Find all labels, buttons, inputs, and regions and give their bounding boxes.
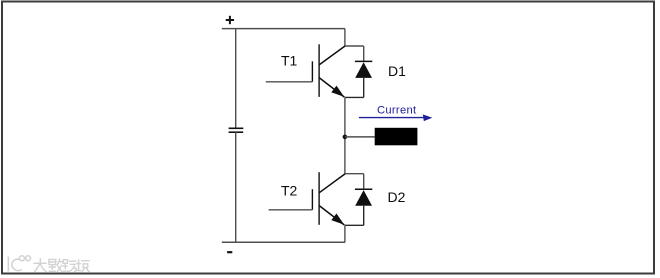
watermark text (stylised CJK strokes) bbox=[34, 259, 89, 272]
capacitor C1 bbox=[229, 128, 244, 132]
wire capacitor branch upper bbox=[235, 29, 237, 128]
svg-text:D1: D1 bbox=[388, 63, 406, 79]
node - (negative DC rail label) bbox=[227, 251, 232, 253]
svg-text:D2: D2 bbox=[388, 189, 406, 205]
wire T2 collector from mid node bbox=[345, 173, 364, 175]
watermark logo bbox=[8, 256, 30, 272]
wire mid node to load bbox=[345, 136, 375, 138]
wire bottom rail bbox=[222, 241, 345, 243]
wire top rail bbox=[222, 28, 345, 30]
wire T1 emitter to mid node bbox=[345, 96, 364, 98]
wire T1 collector from top rail bbox=[345, 29, 364, 46]
wire T2 emitter to bottom rail bbox=[345, 224, 364, 226]
transistor T1 (IGBT) bbox=[266, 44, 345, 97]
svg-text:T1: T1 bbox=[281, 53, 298, 69]
diode D2 bbox=[355, 174, 372, 226]
diode D1 bbox=[355, 46, 372, 97]
node + (positive DC rail label) bbox=[226, 16, 234, 24]
current direction arrow bbox=[359, 114, 432, 121]
svg-text:T2: T2 bbox=[281, 182, 298, 198]
wire capacitor branch lower bbox=[235, 132, 237, 242]
resistor load (black block) bbox=[375, 128, 418, 146]
transistor T2 (IGBT) bbox=[269, 172, 345, 225]
node midpoint junction bbox=[343, 135, 348, 140]
svg-text:Current: Current bbox=[377, 104, 417, 116]
